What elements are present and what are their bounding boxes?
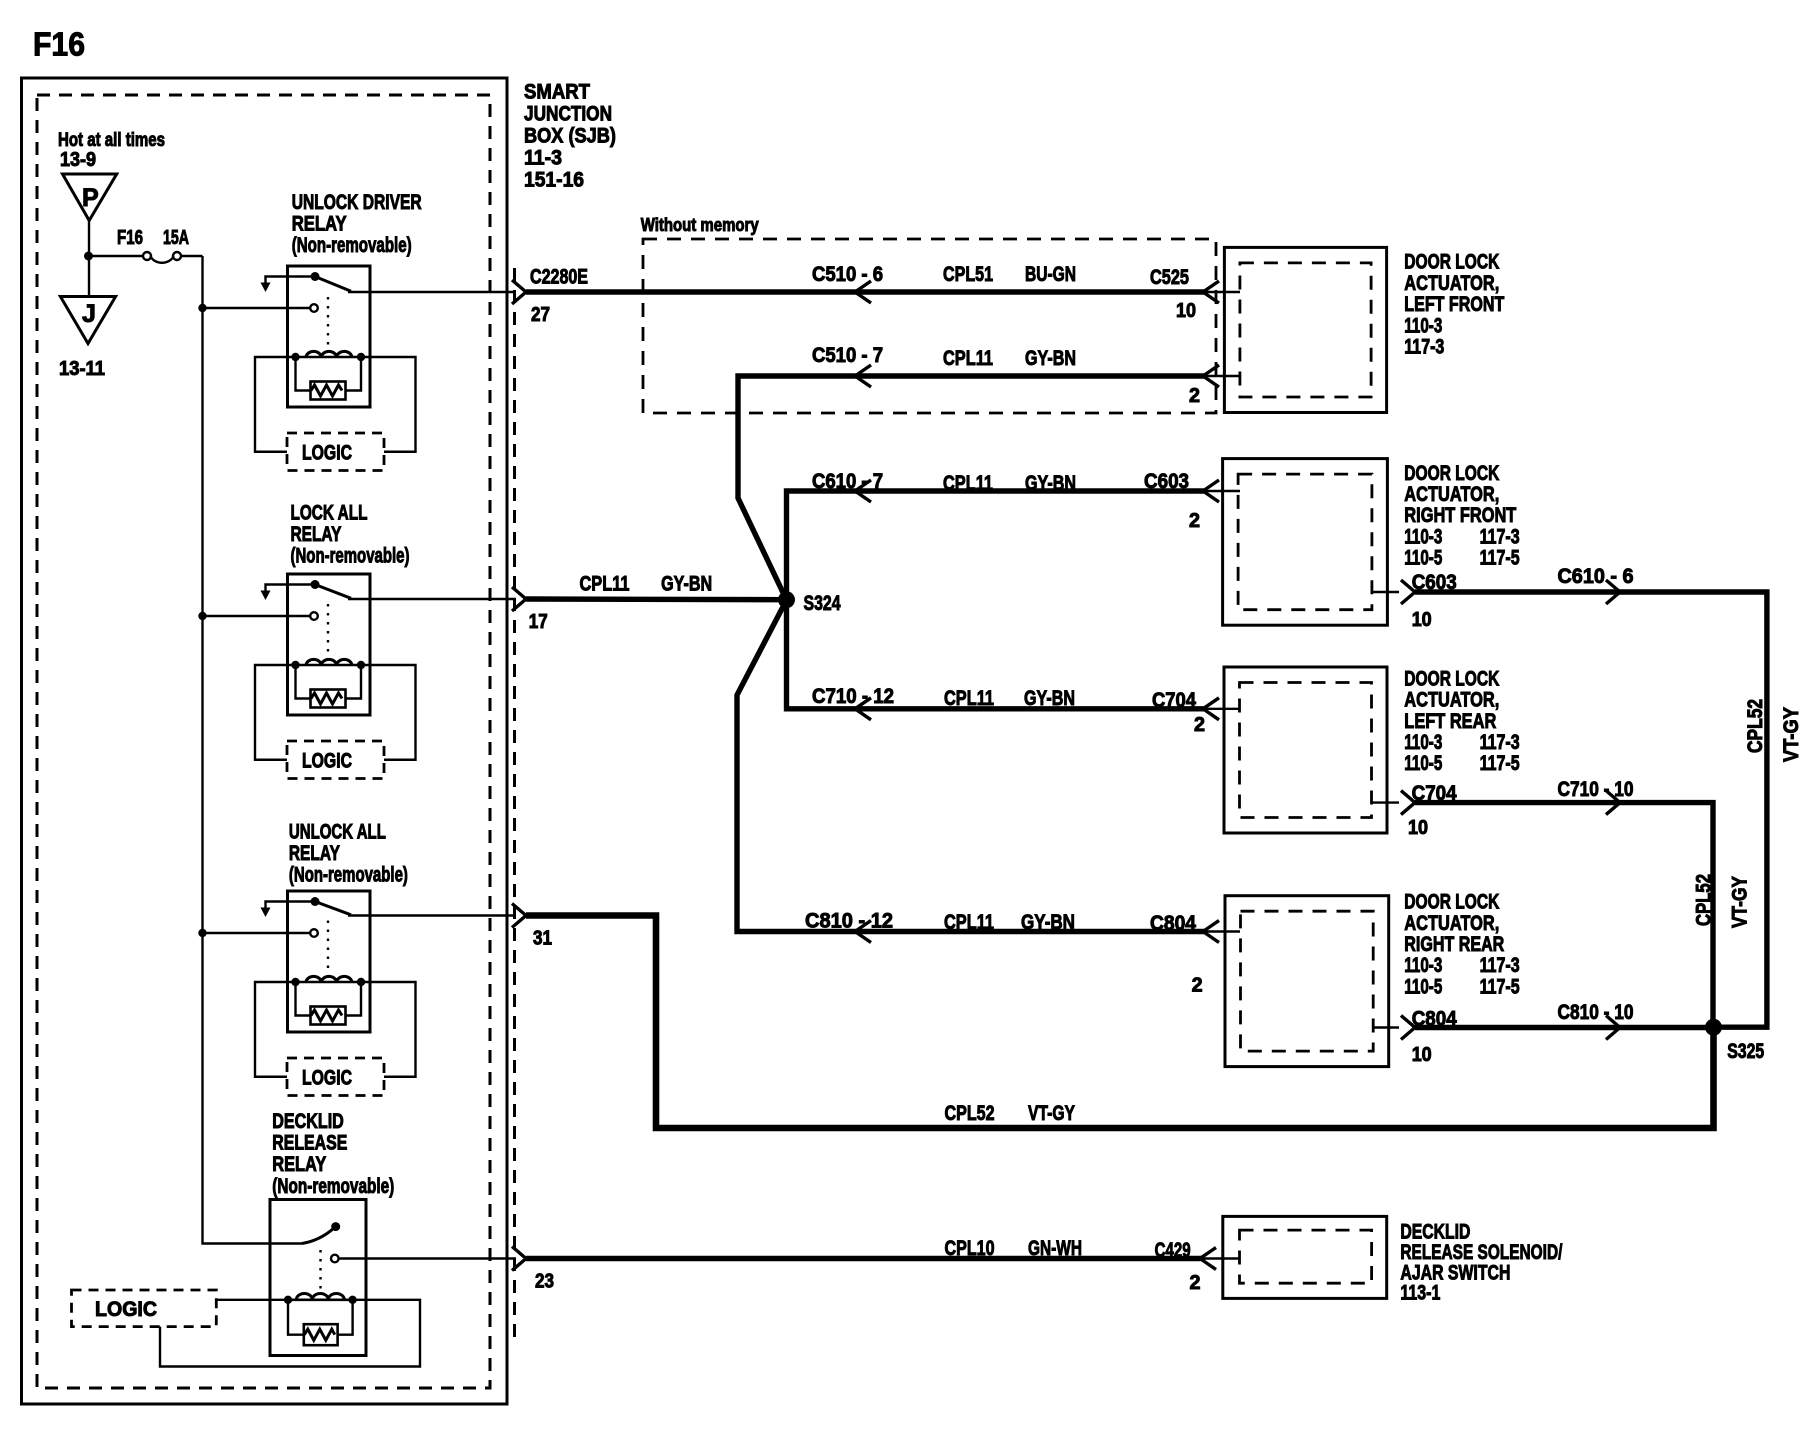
door lock actuator right front box	[1223, 459, 1388, 626]
svg-text:ACTUATOR,: ACTUATOR,	[1404, 689, 1499, 712]
svg-text:C804: C804	[1150, 912, 1196, 935]
unlock driver relay coil	[296, 356, 362, 359]
unlock all relay switch pivot	[311, 897, 320, 906]
svg-text:(Non-removable): (Non-removable)	[272, 1175, 394, 1198]
svg-text:LEFT FRONT: LEFT FRONT	[1404, 293, 1504, 316]
unlock all relay wire coil to logic left	[255, 982, 296, 1077]
bus junction dot	[198, 612, 206, 620]
svg-text:C710 - 10: C710 - 10	[1558, 778, 1634, 801]
svg-text:ACTUATOR,: ACTUATOR,	[1404, 272, 1499, 295]
svg-text:2: 2	[1189, 510, 1200, 532]
svg-text:RIGHT REAR: RIGHT REAR	[1404, 933, 1504, 956]
SJB inner dashed box	[37, 95, 490, 1388]
svg-text:Hot at all times: Hot at all times	[58, 130, 165, 151]
svg-text:Without memory: Without memory	[641, 215, 759, 235]
svg-text:CPL11: CPL11	[944, 911, 994, 934]
svg-text:117-5: 117-5	[1480, 547, 1520, 570]
unlock all relay common terminal circle	[310, 929, 318, 937]
svg-text:LOGIC: LOGIC	[95, 1298, 157, 1321]
svg-text:CPL51: CPL51	[943, 263, 993, 286]
svg-text:SMART: SMART	[524, 81, 590, 104]
wire decklid coil to logic bottom loop	[160, 1300, 420, 1367]
svg-text:UNLOCK DRIVER: UNLOCK DRIVER	[292, 191, 422, 214]
decklid release relay body box	[270, 1200, 366, 1356]
svg-text:UNLOCK ALL: UNLOCK ALL	[289, 821, 386, 844]
svg-text:27: 27	[531, 304, 550, 326]
svg-text:CPL11: CPL11	[943, 347, 993, 370]
wire CPL11 GY-BN (pin 17 to splice S324)	[526, 596, 787, 602]
svg-text:(Non-removable): (Non-removable)	[292, 234, 412, 257]
svg-text:JUNCTION: JUNCTION	[524, 103, 612, 126]
svg-text:C510 - 7: C510 - 7	[812, 344, 883, 367]
door lock actuator left front box	[1224, 247, 1386, 412]
svg-text:117-3: 117-3	[1404, 336, 1444, 359]
svg-text:ACTUATOR,: ACTUATOR,	[1404, 483, 1499, 506]
svg-text:31: 31	[533, 928, 552, 950]
wire fuse to bus	[180, 255, 202, 257]
svg-text:13-11: 13-11	[59, 358, 105, 380]
unlock all relay suppression resistor	[296, 982, 311, 1016]
svg-text:GY-BN: GY-BN	[1021, 911, 1075, 934]
unlock all relay LOGIC box	[287, 1058, 384, 1096]
SJB outer box	[22, 78, 508, 1404]
lock all relay LOGIC box	[287, 741, 384, 779]
unlock all relay actuation dotted link	[327, 921, 329, 975]
wire CPL52 VT-GY (LR actuator pin 10 to S325)	[1372, 801, 1400, 803]
svg-text:110-3: 110-3	[1404, 731, 1442, 754]
decklid relay switch pivot	[331, 1222, 340, 1231]
lock all relay suppression resistor	[296, 665, 311, 699]
lock all relay fixed contact arrow	[266, 585, 316, 592]
svg-text:C525: C525	[1150, 266, 1189, 289]
unlock all relay switch arm	[315, 902, 351, 915]
wire CPL11 GY-BN (S324 to RR actuator pin 2)	[737, 600, 1204, 932]
door lock actuator right rear box	[1225, 896, 1389, 1067]
fuse F16 15A	[143, 252, 151, 260]
svg-text:C429: C429	[1155, 1239, 1191, 1262]
svg-text:C804: C804	[1412, 1008, 1457, 1031]
svg-text:VT-GY: VT-GY	[1028, 1102, 1075, 1125]
svg-text:117-5: 117-5	[1480, 752, 1520, 775]
decklid relay output wire to pin 23	[339, 1257, 516, 1259]
svg-text:CPL11: CPL11	[943, 472, 993, 495]
svg-text:DOOR LOCK: DOOR LOCK	[1404, 667, 1499, 690]
wire CPL11 GY-BN (S324 to LF actuator pin 2)	[738, 376, 1204, 600]
svg-text:110-5: 110-5	[1404, 752, 1442, 775]
svg-text:RELAY: RELAY	[272, 1153, 326, 1176]
bus junction dot	[198, 929, 206, 937]
svg-text:VT-GY: VT-GY	[1780, 707, 1803, 762]
wire CPL11 GY-BN (S324 to LR actuator pin 2)	[787, 600, 1205, 709]
unlock driver relay output wire to pin	[348, 291, 516, 293]
power triangle J	[60, 297, 115, 344]
unlock driver relay fixed contact arrow	[266, 277, 316, 284]
unlock driver relay LOGIC box	[287, 433, 384, 471]
svg-text:F16: F16	[33, 26, 85, 63]
unlock driver relay wire coil to logic right	[361, 357, 416, 452]
lock all relay switch pivot	[311, 580, 320, 589]
decklid relay switch arm	[302, 1228, 334, 1244]
svg-text:23: 23	[535, 1271, 554, 1293]
svg-text:17: 17	[529, 611, 548, 633]
unlock driver relay switch pivot	[311, 272, 320, 281]
svg-text:CPL52: CPL52	[1693, 874, 1716, 926]
lock all relay output wire to pin	[348, 598, 516, 600]
decklid relay common terminal circle	[331, 1255, 339, 1263]
svg-text:151-16: 151-16	[524, 169, 584, 192]
svg-text:C610 - 6: C610 - 6	[1558, 565, 1634, 588]
lock all relay coil	[296, 664, 362, 667]
svg-text:LOGIC: LOGIC	[302, 442, 352, 465]
svg-text:C704: C704	[1412, 782, 1457, 805]
svg-text:2: 2	[1194, 714, 1205, 736]
pin 27 connector arrow	[512, 280, 526, 304]
svg-text:ACTUATOR,: ACTUATOR,	[1404, 912, 1499, 935]
wire tap to fuse	[89, 255, 144, 257]
unlock all relay body box	[288, 891, 371, 1032]
svg-text:DECKLID: DECKLID	[272, 1110, 344, 1133]
power triangle P	[63, 174, 117, 221]
svg-text:CPL52: CPL52	[1744, 699, 1767, 753]
unlock all relay fixed contact arrow	[266, 902, 316, 909]
svg-text:(Non-removable): (Non-removable)	[289, 864, 408, 887]
svg-text:GY-BN: GY-BN	[661, 573, 712, 596]
lock all relay wire coil to logic right	[361, 665, 416, 760]
svg-text:BU-GN: BU-GN	[1025, 263, 1076, 286]
wire CPL52 VT-GY (pin 31 loop to S325)	[526, 916, 1714, 1129]
lock all relay common feed wire from bus	[203, 615, 311, 617]
decklid LOGIC box	[72, 1290, 217, 1327]
svg-text:110-5: 110-5	[1404, 975, 1442, 998]
svg-text:S325: S325	[1727, 1040, 1764, 1063]
svg-text:10: 10	[1176, 300, 1196, 322]
svg-text:C2280E: C2280E	[530, 266, 588, 289]
unlock all relay common feed wire from bus	[203, 932, 311, 934]
unlock driver relay common terminal circle	[310, 304, 318, 312]
wire P to J	[88, 221, 90, 297]
svg-text:DOOR LOCK: DOOR LOCK	[1404, 462, 1499, 485]
svg-text:10: 10	[1408, 817, 1428, 839]
unlock driver relay wire coil to logic left	[255, 357, 296, 452]
unlock driver relay suppression resistor	[296, 357, 311, 391]
door lock actuator left rear box	[1224, 667, 1387, 833]
svg-text:10: 10	[1412, 1044, 1432, 1066]
lock all relay actuation dotted link	[327, 604, 329, 657]
svg-text:GY-BN: GY-BN	[1025, 347, 1076, 370]
svg-text:VT-GY: VT-GY	[1729, 876, 1752, 928]
svg-text:CPL10: CPL10	[945, 1237, 995, 1260]
svg-text:F16: F16	[117, 227, 143, 249]
svg-text:2: 2	[1190, 1272, 1201, 1294]
svg-text:C610 - 7: C610 - 7	[812, 470, 883, 493]
svg-text:13-9: 13-9	[60, 149, 96, 171]
svg-text:110-3: 110-3	[1404, 525, 1442, 548]
SJB connector dashed line	[513, 268, 516, 1345]
svg-text:117-3: 117-3	[1480, 954, 1520, 977]
unlock driver relay body box	[288, 266, 371, 407]
svg-text:C603: C603	[1144, 470, 1189, 493]
decklid relay suppression resistor	[288, 1300, 304, 1335]
svg-text:C704: C704	[1152, 689, 1196, 712]
unlock driver relay actuation dotted link	[327, 297, 329, 349]
unlock all relay coil	[296, 981, 362, 984]
wire CPL10 GN-WH (pin 23 to decklid solenoid)	[526, 1256, 1201, 1261]
svg-text:2: 2	[1189, 385, 1200, 407]
lock all relay body box	[288, 574, 371, 715]
svg-text:15A: 15A	[163, 227, 189, 249]
svg-text:C710 - 12: C710 - 12	[812, 685, 894, 708]
svg-text:CPL11: CPL11	[580, 573, 630, 596]
wire bus vertical	[203, 256, 303, 1244]
svg-text:J: J	[82, 300, 96, 328]
wire CPL52 VT-GY (RF actuator pin 10 to S325)	[1372, 591, 1399, 593]
pin 17 connector arrow	[512, 587, 526, 611]
decklid relay coil	[288, 1299, 353, 1302]
svg-text:RELAY: RELAY	[292, 213, 347, 236]
splice S325	[1705, 1019, 1722, 1036]
svg-text:C810 - 10: C810 - 10	[1558, 1001, 1634, 1024]
svg-text:117-3: 117-3	[1480, 731, 1520, 754]
svg-text:110-3: 110-3	[1404, 314, 1442, 337]
svg-text:117-5: 117-5	[1480, 975, 1520, 998]
svg-text:113-1: 113-1	[1400, 1282, 1440, 1305]
Without memory dashed box	[643, 239, 1216, 413]
svg-text:S324: S324	[804, 592, 841, 615]
svg-text:LOGIC: LOGIC	[302, 750, 352, 773]
decklid relay actuation dotted link	[319, 1250, 321, 1291]
wire logic to decklid coil	[216, 1299, 288, 1301]
pin 23 connector arrow	[512, 1247, 526, 1271]
svg-text:RELAY: RELAY	[289, 842, 340, 865]
svg-text:C603: C603	[1412, 571, 1457, 594]
svg-text:(Non-removable): (Non-removable)	[291, 544, 410, 567]
decklid release solenoid box	[1223, 1216, 1387, 1298]
svg-text:GN-WH: GN-WH	[1028, 1237, 1082, 1260]
svg-text:CPL11: CPL11	[944, 687, 994, 710]
wire CPL52 VT-GY (RR actuator pin 10 to S325)	[1373, 1026, 1399, 1028]
bus junction dot	[198, 304, 206, 312]
unlock all relay wire coil to logic right	[361, 982, 416, 1077]
svg-text:GY-BN: GY-BN	[1025, 472, 1076, 495]
svg-text:2: 2	[1192, 975, 1203, 997]
svg-text:RIGHT FRONT: RIGHT FRONT	[1404, 504, 1516, 527]
lock all relay wire coil to logic left	[255, 665, 296, 760]
wire CPL11 GY-BN (S324 to RF actuator pin 2)	[787, 491, 1205, 600]
unlock all relay output wire to pin	[348, 914, 516, 916]
svg-text:BOX (SJB): BOX (SJB)	[524, 125, 616, 148]
svg-text:C510 - 6: C510 - 6	[812, 263, 883, 286]
lock all relay common terminal circle	[310, 612, 318, 620]
svg-text:P: P	[82, 184, 99, 212]
pin 31 connector arrow	[512, 904, 526, 928]
svg-text:LOCK ALL: LOCK ALL	[291, 501, 368, 524]
lock all relay switch arm	[315, 585, 351, 599]
splice S324	[778, 591, 795, 608]
svg-text:CPL52: CPL52	[945, 1102, 995, 1125]
wire CPL51 BU-GN (pin 27 to LF actuator pin 10)	[526, 289, 1204, 294]
unlock driver relay switch arm	[315, 277, 351, 292]
svg-text:110-5: 110-5	[1404, 547, 1442, 570]
svg-text:110-3: 110-3	[1404, 954, 1442, 977]
svg-text:117-3: 117-3	[1480, 525, 1520, 548]
svg-text:11-3: 11-3	[524, 147, 562, 170]
svg-text:10: 10	[1412, 609, 1432, 631]
svg-text:DOOR LOCK: DOOR LOCK	[1404, 891, 1499, 914]
svg-text:LEFT REAR: LEFT REAR	[1404, 710, 1496, 733]
svg-text:RELAY: RELAY	[291, 523, 342, 546]
svg-text:GY-BN: GY-BN	[1024, 687, 1075, 710]
node fuse tap junction	[84, 252, 93, 261]
svg-text:LOGIC: LOGIC	[302, 1067, 352, 1090]
svg-text:RELEASE: RELEASE	[272, 1132, 347, 1155]
svg-text:C810 - 12: C810 - 12	[805, 910, 893, 933]
unlock driver relay common feed wire from bus	[203, 307, 311, 309]
svg-text:DOOR LOCK: DOOR LOCK	[1404, 251, 1499, 274]
